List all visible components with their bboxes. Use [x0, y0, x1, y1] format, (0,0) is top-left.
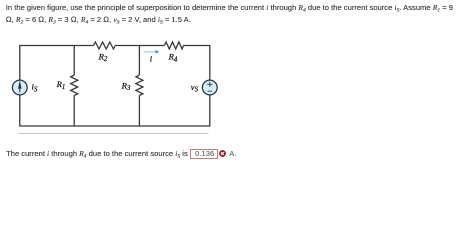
- resistor R4: [164, 42, 183, 49]
- svg-text:vS: vS: [191, 82, 199, 94]
- answer value box: [190, 149, 217, 159]
- wire right-bottom segment: [20, 95, 210, 126]
- svg-text:R1: R1: [56, 79, 66, 91]
- resistor R2: [94, 42, 116, 49]
- unit label: [229, 149, 236, 158]
- wire R3 branch bottom: [138, 96, 140, 127]
- wire R1 branch top: [73, 46, 75, 76]
- answer sentence: [6, 149, 188, 162]
- voltage source vS: [202, 80, 217, 95]
- svg-text:R3: R3: [121, 80, 131, 92]
- current source iS: [12, 80, 27, 95]
- wire top-right segment: [184, 46, 210, 80]
- resistor R1: [71, 75, 78, 96]
- wire top-left segment: [20, 46, 94, 80]
- problem statement text line 1: [6, 3, 453, 16]
- gray separator line: [19, 132, 209, 134]
- wire R3 branch top: [138, 46, 140, 76]
- svg-text:i: i: [150, 53, 153, 63]
- problem statement text line 2: [6, 15, 191, 28]
- current arrow i: [144, 50, 160, 54]
- svg-text:R2: R2: [98, 51, 108, 63]
- resistor R3: [136, 75, 143, 96]
- incorrect icon: [218, 149, 228, 159]
- svg-text:R4: R4: [168, 52, 178, 64]
- wire top-middle segment: [115, 45, 164, 47]
- wire R1 branch bottom: [73, 96, 75, 127]
- svg-text:iS: iS: [32, 82, 38, 94]
